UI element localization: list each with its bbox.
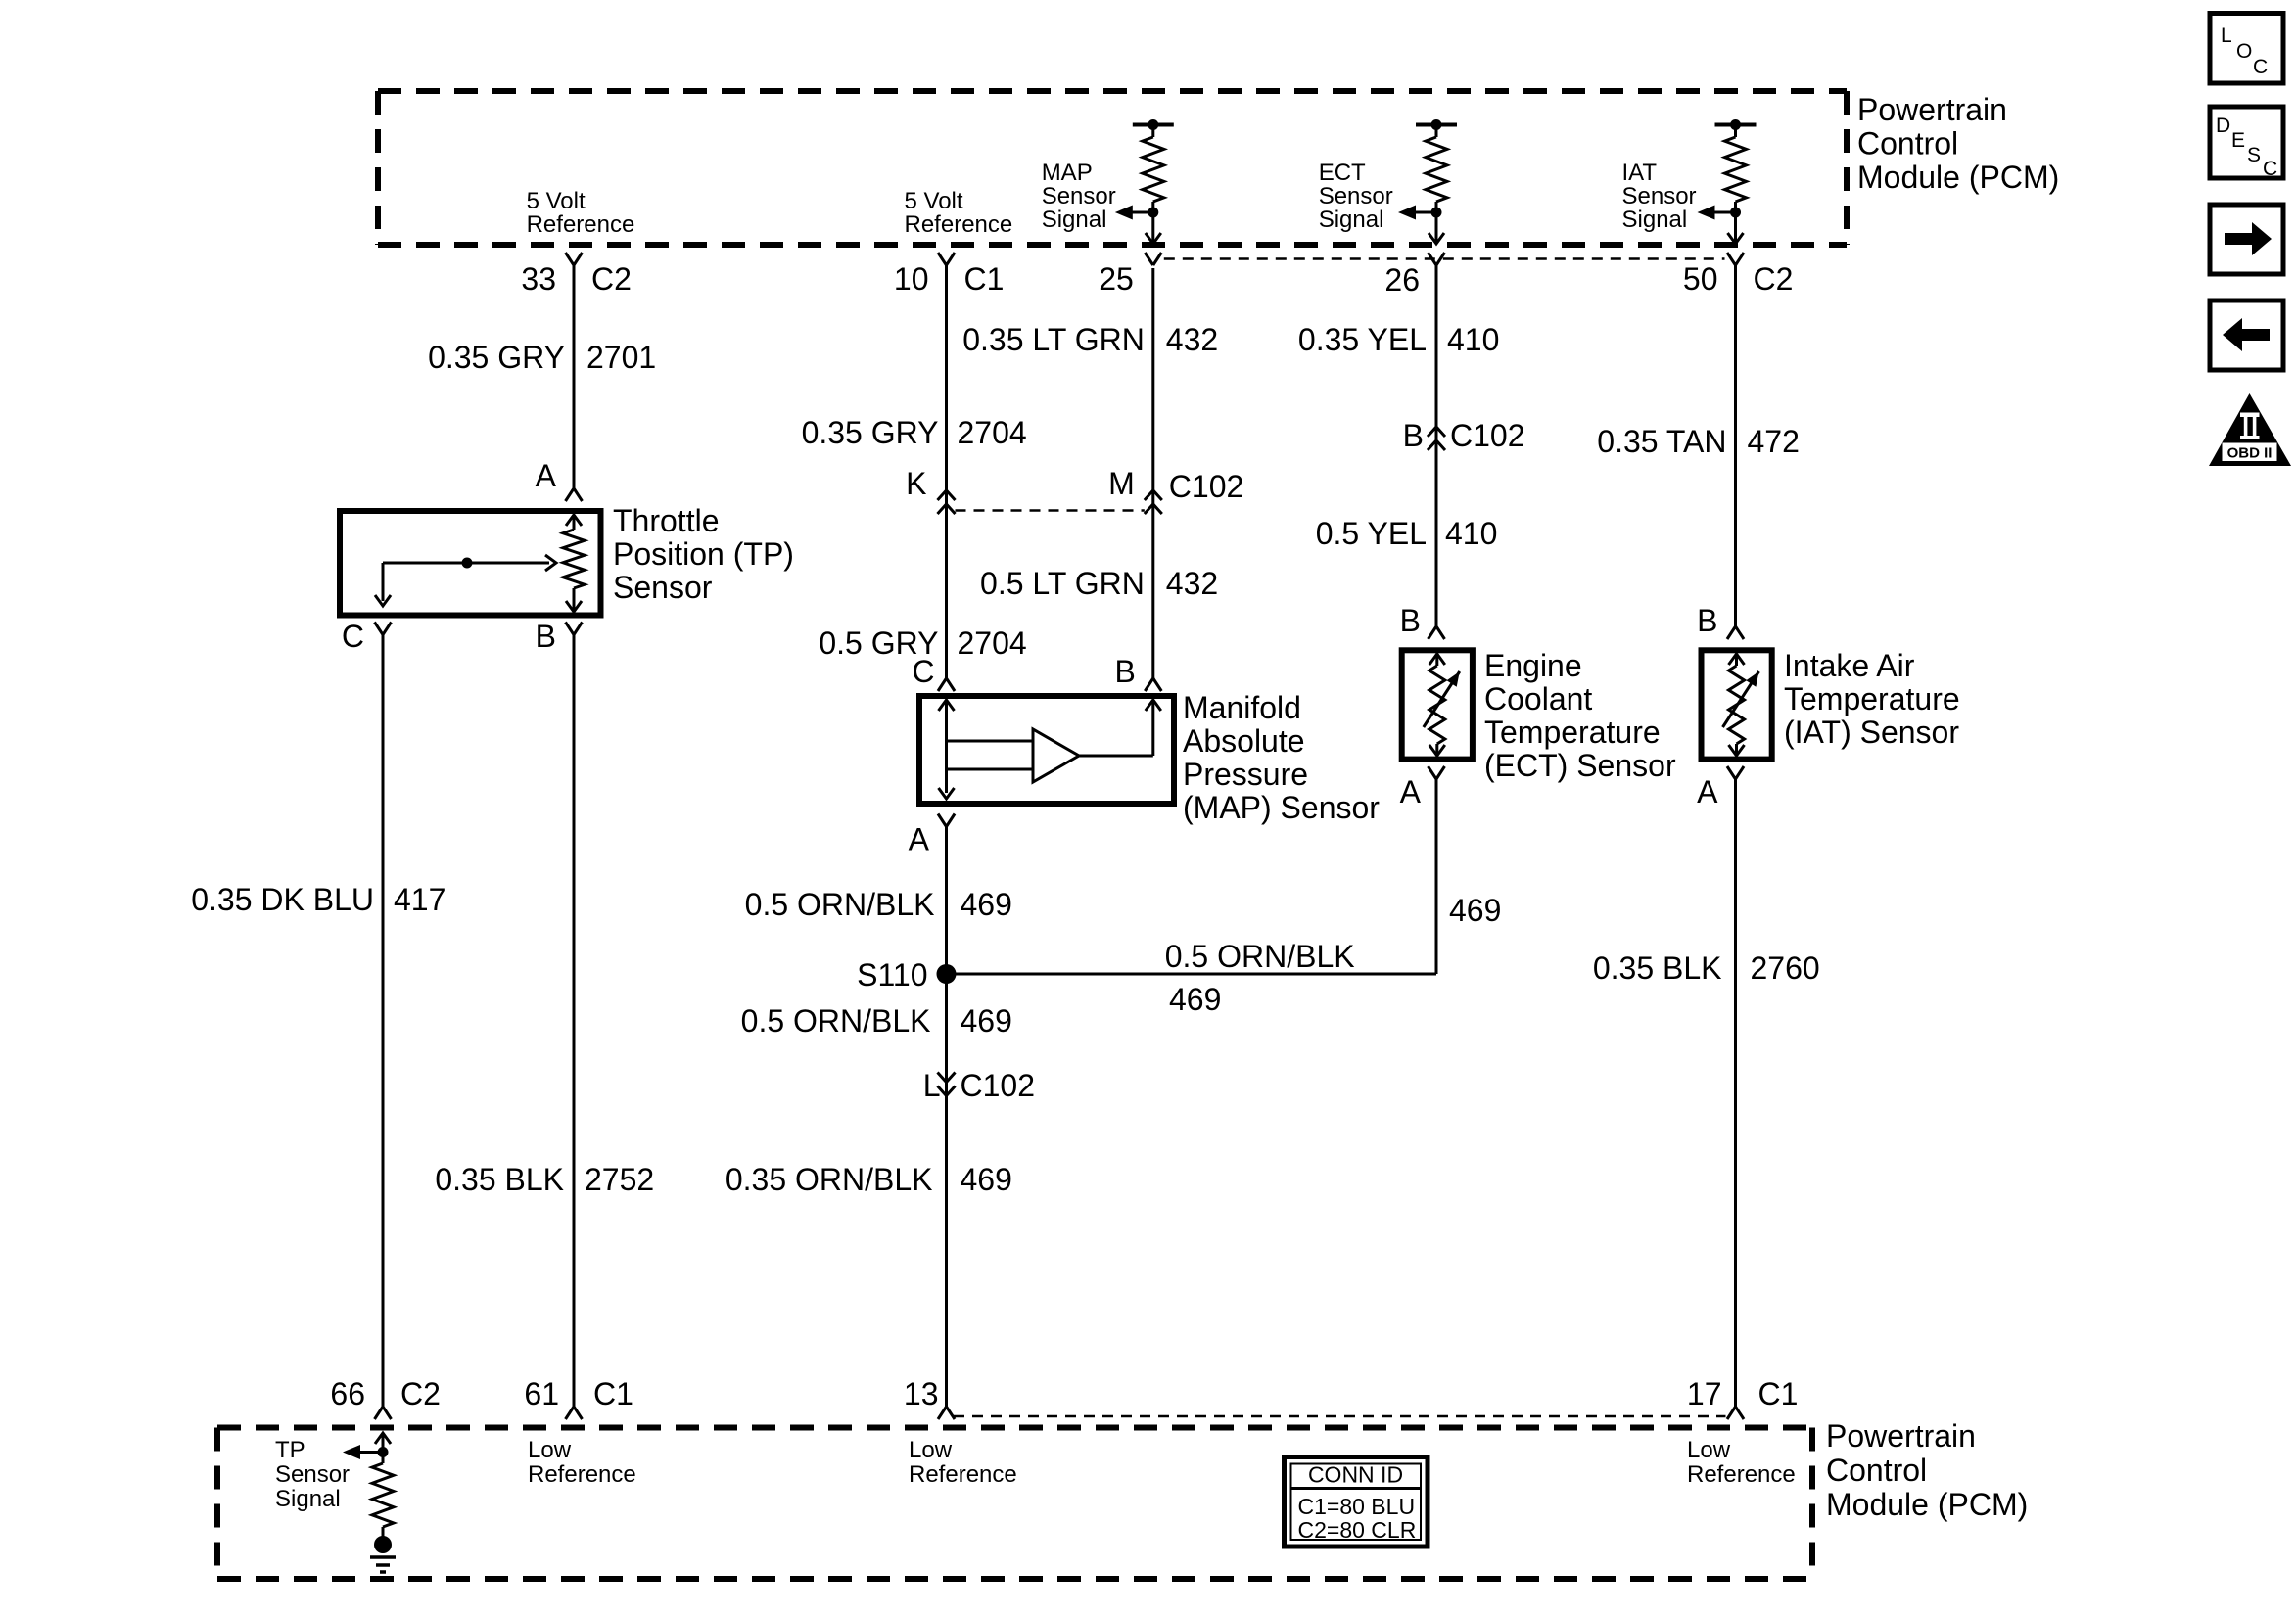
svg-text:0.35 GRY: 0.35 GRY — [802, 415, 939, 450]
svg-text:472: 472 — [1748, 424, 1800, 459]
svg-text:(MAP) Sensor: (MAP) Sensor — [1183, 790, 1380, 825]
svg-text:61: 61 — [524, 1376, 559, 1411]
svg-text:C: C — [912, 654, 934, 689]
svg-text:0.35 BLK: 0.35 BLK — [435, 1162, 564, 1197]
svg-text:C1: C1 — [1758, 1376, 1799, 1411]
svg-text:A: A — [536, 458, 557, 493]
svg-text:C102: C102 — [1169, 469, 1244, 504]
svg-text:B: B — [1114, 654, 1135, 689]
svg-text:A: A — [1400, 774, 1422, 809]
svg-text:Low: Low — [1687, 1437, 1731, 1463]
svg-text:C1: C1 — [964, 261, 1005, 297]
svg-text:Sensor: Sensor — [1622, 183, 1697, 209]
svg-text:0.5 ORN/BLK: 0.5 ORN/BLK — [1165, 939, 1355, 974]
svg-text:17: 17 — [1687, 1376, 1722, 1411]
svg-text:Intake Air: Intake Air — [1784, 648, 1915, 683]
svg-text:410: 410 — [1447, 322, 1499, 357]
svg-text:Sensor: Sensor — [1042, 183, 1116, 209]
svg-text:L: L — [923, 1068, 941, 1103]
svg-text:Reference: Reference — [528, 1461, 636, 1488]
svg-text:25: 25 — [1099, 261, 1134, 297]
svg-text:S110: S110 — [857, 957, 927, 993]
svg-text:Control: Control — [1826, 1453, 1927, 1488]
svg-text:K: K — [906, 466, 926, 501]
svg-text:L: L — [2221, 24, 2232, 47]
svg-text:Powertrain: Powertrain — [1857, 92, 2007, 127]
svg-text:469: 469 — [1169, 982, 1221, 1017]
svg-text:Reference: Reference — [905, 211, 1013, 238]
svg-text:OBD II: OBD II — [2227, 445, 2273, 462]
svg-text:10: 10 — [894, 261, 929, 297]
svg-text:S: S — [2247, 144, 2261, 166]
svg-text:Signal: Signal — [1622, 207, 1688, 233]
svg-text:MAP: MAP — [1042, 160, 1093, 186]
svg-text:0.5 YEL: 0.5 YEL — [1316, 516, 1427, 551]
svg-text:Engine: Engine — [1484, 648, 1582, 683]
svg-text:26: 26 — [1384, 262, 1420, 298]
svg-text:C: C — [2253, 56, 2268, 78]
svg-text:Position (TP): Position (TP) — [613, 536, 794, 572]
svg-text:C2=80 CLR: C2=80 CLR — [1298, 1517, 1417, 1543]
svg-text:Reference: Reference — [527, 211, 635, 238]
svg-text:E: E — [2231, 129, 2245, 152]
svg-text:ECT: ECT — [1319, 160, 1366, 186]
svg-text:13: 13 — [904, 1376, 939, 1411]
svg-text:Module (PCM): Module (PCM) — [1857, 160, 2059, 195]
svg-text:B: B — [1697, 603, 1717, 638]
svg-text:0.35 YEL: 0.35 YEL — [1298, 322, 1427, 357]
svg-text:(IAT) Sensor: (IAT) Sensor — [1784, 715, 1959, 750]
svg-text:C102: C102 — [1450, 418, 1525, 453]
svg-text:0.35 GRY: 0.35 GRY — [428, 340, 565, 375]
svg-text:Sensor: Sensor — [275, 1461, 350, 1488]
svg-text:Pressure: Pressure — [1183, 757, 1308, 792]
svg-text:(ECT) Sensor: (ECT) Sensor — [1484, 748, 1676, 783]
svg-text:A: A — [909, 822, 930, 857]
svg-text:C: C — [342, 619, 364, 654]
svg-text:410: 410 — [1445, 516, 1497, 551]
svg-text:417: 417 — [394, 882, 445, 917]
svg-text:M: M — [1108, 466, 1135, 501]
svg-text:C1: C1 — [593, 1376, 633, 1411]
svg-text:Temperature: Temperature — [1784, 681, 1960, 716]
svg-text:B: B — [1400, 603, 1421, 638]
svg-text:Signal: Signal — [1319, 207, 1384, 233]
svg-text:TP: TP — [275, 1437, 305, 1463]
svg-text:0.5 LT GRN: 0.5 LT GRN — [980, 566, 1145, 601]
svg-text:A: A — [1697, 774, 1718, 809]
svg-text:432: 432 — [1166, 566, 1218, 601]
svg-text:C102: C102 — [961, 1068, 1036, 1103]
svg-text:2704: 2704 — [958, 625, 1027, 661]
svg-text:Coolant: Coolant — [1484, 681, 1592, 716]
svg-text:2704: 2704 — [958, 415, 1027, 450]
svg-text:Throttle: Throttle — [613, 503, 719, 538]
svg-text:D: D — [2216, 115, 2230, 137]
svg-text:66: 66 — [330, 1376, 365, 1411]
svg-text:C2: C2 — [591, 261, 632, 297]
svg-text:Control: Control — [1857, 126, 1958, 162]
svg-text:33: 33 — [521, 261, 556, 297]
svg-text:2752: 2752 — [585, 1162, 654, 1197]
svg-text:Low: Low — [909, 1437, 953, 1463]
svg-text:C1=80 BLU: C1=80 BLU — [1298, 1494, 1416, 1519]
svg-text:5 Volt: 5 Volt — [527, 188, 586, 214]
svg-text:432: 432 — [1166, 322, 1218, 357]
svg-text:0.5 ORN/BLK: 0.5 ORN/BLK — [741, 1003, 931, 1039]
svg-text:CONN ID: CONN ID — [1308, 1462, 1403, 1488]
svg-text:Manifold: Manifold — [1183, 690, 1301, 725]
svg-text:Sensor: Sensor — [613, 570, 713, 605]
svg-text:0.35 DK BLU: 0.35 DK BLU — [191, 882, 374, 917]
svg-text:Reference: Reference — [1687, 1461, 1796, 1488]
svg-text:B: B — [1403, 418, 1424, 453]
svg-text:2760: 2760 — [1751, 950, 1820, 986]
svg-text:Signal: Signal — [275, 1486, 341, 1512]
svg-text:O: O — [2236, 40, 2252, 63]
svg-text:0.35 LT GRN: 0.35 LT GRN — [962, 322, 1145, 357]
svg-text:C2: C2 — [1754, 261, 1794, 297]
svg-text:Sensor: Sensor — [1319, 183, 1393, 209]
svg-text:0.35 ORN/BLK: 0.35 ORN/BLK — [726, 1162, 933, 1197]
svg-text:0.5 ORN/BLK: 0.5 ORN/BLK — [745, 887, 935, 922]
svg-text:Reference: Reference — [909, 1461, 1017, 1488]
svg-text:469: 469 — [961, 1162, 1012, 1197]
svg-text:0.35 BLK: 0.35 BLK — [1593, 950, 1722, 986]
svg-text:Low: Low — [528, 1437, 572, 1463]
svg-text:C2: C2 — [400, 1376, 441, 1411]
svg-text:Module (PCM): Module (PCM) — [1826, 1487, 2028, 1522]
svg-text:0.35 TAN: 0.35 TAN — [1597, 424, 1726, 459]
svg-text:5 Volt: 5 Volt — [905, 188, 963, 214]
svg-text:50: 50 — [1683, 261, 1718, 297]
svg-text:C: C — [2263, 158, 2277, 180]
svg-text:469: 469 — [1449, 893, 1501, 928]
svg-text:Signal: Signal — [1042, 207, 1107, 233]
svg-text:Absolute: Absolute — [1183, 723, 1305, 759]
svg-text:Powertrain: Powertrain — [1826, 1418, 1976, 1454]
svg-text:469: 469 — [961, 1003, 1012, 1039]
svg-text:Temperature: Temperature — [1484, 715, 1661, 750]
svg-text:IAT: IAT — [1622, 160, 1658, 186]
svg-text:2701: 2701 — [586, 340, 656, 375]
svg-text:469: 469 — [961, 887, 1012, 922]
svg-text:B: B — [536, 619, 556, 654]
